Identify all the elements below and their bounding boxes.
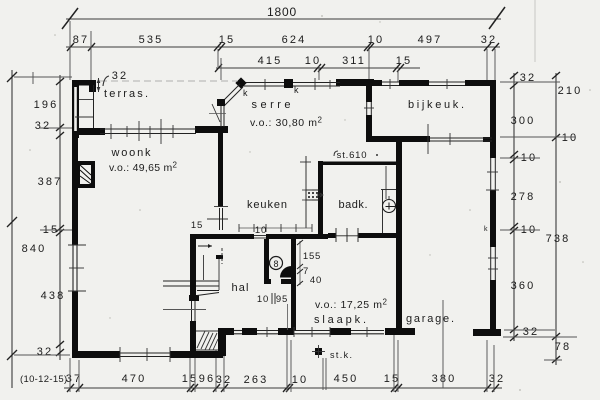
- bijkeuken west wall: [366, 86, 372, 140]
- svg-text:450: 450: [334, 373, 359, 385]
- woonk south window: [120, 351, 170, 358]
- dim row1 slash left: [62, 8, 78, 29]
- terras left wall: [72, 80, 79, 138]
- left inner dim line: [59, 75, 61, 360]
- svg-text:10: 10: [305, 55, 321, 67]
- woonk east wall end tick + sidelight: [207, 207, 228, 220]
- stairs side lines: [203, 255, 205, 280]
- serre posts: [235, 77, 246, 88]
- keuken vent hatch box: [306, 190, 319, 200]
- svg-text:k: k: [243, 88, 248, 98]
- svg-text:k: k: [484, 226, 488, 233]
- st.k chimney block: [315, 348, 322, 355]
- wc door sector: [280, 266, 292, 278]
- bottom witness verticals: [70, 334, 494, 392]
- bijkeuken south wall: [366, 136, 430, 142]
- svg-text:10: 10: [292, 374, 308, 386]
- dim row1 slash right: [489, 7, 505, 29]
- svg-text:badk.: badk.: [339, 199, 370, 211]
- svg-text:32: 32: [112, 70, 128, 82]
- entrance porch hatch: [197, 331, 218, 350]
- svg-text:terras.: terras.: [104, 88, 150, 100]
- svg-text:155: 155: [303, 251, 321, 262]
- dim row3 line: [216, 67, 420, 69]
- svg-text:15: 15: [219, 34, 235, 46]
- wc/hal east wall: [291, 239, 296, 330]
- left outer dim line 840: [11, 70, 13, 388]
- svg-text:438: 438: [41, 290, 66, 302]
- right witness horizontals: [500, 82, 577, 360]
- svg-text:v.o.: 17,25 m2: v.o.: 17,25 m2: [315, 298, 388, 312]
- garage SE foot: [473, 329, 501, 336]
- faint top wall extension: [100, 80, 238, 82]
- svg-text:woonk: woonk: [111, 147, 153, 159]
- fireplace inner hatch: [80, 165, 91, 184]
- garage east wall window upper: [490, 158, 496, 190]
- hal west wall lower: [190, 321, 196, 353]
- svg-text:bijkeuk.: bijkeuk.: [408, 99, 466, 111]
- svg-text:278: 278: [511, 191, 536, 203]
- row3 slashes: [215, 64, 404, 72]
- slaapk south window 2: [351, 330, 384, 332]
- svg-text:624: 624: [282, 34, 307, 46]
- bottom dim line: [64, 387, 502, 389]
- left witness horizontals: [14, 72, 72, 355]
- svg-text:10: 10: [368, 34, 384, 46]
- svg-text:7: 7: [303, 266, 309, 277]
- wall above hal (woonk doorway): [190, 234, 223, 239]
- garage door centre witness: [442, 300, 444, 388]
- svg-text:387: 387: [38, 176, 63, 188]
- stairs treads: [163, 281, 219, 296]
- keuken south wall: [223, 234, 254, 239]
- dim row1 line 1800: [66, 18, 501, 20]
- svg-text:470: 470: [122, 373, 147, 385]
- keuken flue line: [305, 156, 307, 228]
- svg-text:87: 87: [73, 34, 89, 46]
- st.k cross ticks: [312, 351, 325, 353]
- left wall window: [72, 245, 78, 291]
- hal window in west wall: [191, 301, 193, 321]
- svg-text:serre: serre: [252, 99, 293, 111]
- terras inner line + steps: [93, 85, 95, 128]
- bijkeuken north window 2: [429, 81, 465, 83]
- woonk east wall: [218, 133, 223, 207]
- bijkeuken west wall window: [366, 102, 372, 115]
- svg-text:196: 196: [34, 99, 59, 111]
- svg-text:380: 380: [432, 373, 457, 385]
- serre door leaf: [212, 104, 220, 122]
- garage east wall window lower: [490, 247, 496, 280]
- svg-text:garage.: garage.: [406, 313, 456, 325]
- slaapk south window 1: [294, 330, 330, 332]
- garage east exterior wall: [490, 82, 496, 336]
- svg-text:32: 32: [35, 120, 51, 132]
- svg-text:8: 8: [273, 259, 278, 269]
- svg-text:10: 10: [562, 132, 578, 144]
- garage west wall: [396, 136, 402, 330]
- garage west foot: [385, 328, 415, 335]
- bottom slashes: [67, 384, 499, 392]
- badk west wall: [318, 161, 323, 239]
- stairs arrow: [198, 245, 212, 247]
- badk top wall: [318, 162, 396, 166]
- witness verticals top: [70, 21, 495, 82]
- svg-text:311: 311: [342, 55, 366, 67]
- woonk NE wall chunk: [195, 126, 228, 133]
- svg-text:keuken: keuken: [247, 199, 289, 211]
- svg-text:32: 32: [489, 373, 505, 385]
- svg-text:738: 738: [546, 233, 571, 245]
- terras top wall: [72, 80, 96, 86]
- svg-text:300: 300: [511, 115, 536, 127]
- wc west wall: [264, 239, 269, 284]
- woonk south wall: [72, 351, 223, 358]
- svg-text:96: 96: [199, 373, 215, 385]
- garage west wall window: [381, 189, 396, 191]
- st.610 label: [334, 151, 338, 156]
- stairs dashed line: [221, 248, 223, 264]
- bijkeuken north wall pieces: [374, 80, 382, 86]
- slaapk corner dim line: [299, 241, 301, 285]
- svg-text:263: 263: [244, 374, 269, 386]
- svg-text:1800: 1800: [267, 5, 297, 19]
- serre corner post: [217, 99, 225, 106]
- left exterior wall: [72, 128, 78, 358]
- svg-text:k: k: [294, 85, 299, 95]
- keuken counter dim line: [239, 227, 312, 229]
- svg-text:535: 535: [139, 34, 164, 46]
- svg-text:78: 78: [555, 341, 571, 353]
- wall east of entrance porch: [218, 328, 226, 356]
- top wall thick segment serre-bijkeuken: [336, 79, 374, 86]
- entrance door thin lines: [234, 330, 242, 332]
- terras 32 dim: [98, 78, 100, 92]
- dim row2 line: [66, 46, 500, 48]
- svg-text:(10-12-15): (10-12-15): [20, 374, 68, 385]
- south wall entrance piece: [242, 328, 257, 335]
- svg-text:37: 37: [66, 373, 82, 385]
- fireplace block: [76, 161, 95, 188]
- svg-text:32: 32: [37, 346, 53, 358]
- svg-text:15: 15: [396, 55, 412, 67]
- svg-text:v.o.: 30,80 m2: v.o.: 30,80 m2: [250, 116, 323, 130]
- svg-text:95: 95: [276, 294, 288, 305]
- svg-text:hal: hal: [232, 282, 251, 294]
- badk boiler circle: [383, 200, 396, 213]
- woonk north window: [100, 129, 196, 134]
- terras wall slit: [74, 87, 77, 131]
- svg-text:840: 840: [22, 243, 47, 255]
- keuken doorway thin lines: [254, 235, 266, 237]
- svg-text:slaapk.: slaapk.: [314, 314, 368, 326]
- right inner dim line: [513, 73, 515, 341]
- wc symbol circle 8: [270, 257, 283, 270]
- svg-text:v.o.: 49,65 m2: v.o.: 49,65 m2: [109, 161, 178, 175]
- south wall piece 4: [330, 328, 351, 335]
- south wall piece 3: [278, 328, 294, 335]
- right outer dim line: [555, 73, 557, 365]
- wc south wall: [264, 279, 271, 284]
- svg-text:10: 10: [255, 225, 267, 236]
- badk south door ticks: [336, 228, 358, 242]
- svg-text:497: 497: [418, 34, 443, 46]
- bijkeuken south window band: [430, 137, 492, 139]
- row2 slashes: [67, 43, 499, 51]
- hal witness tick: [163, 309, 206, 311]
- svg-text:415: 415: [258, 55, 283, 67]
- serre angled window: [221, 84, 243, 127]
- svg-text:st.k.: st.k.: [330, 350, 352, 360]
- NW corner bar: [72, 128, 105, 135]
- serre top window: [238, 83, 340, 87]
- svg-text:210: 210: [558, 85, 583, 97]
- entrance side window: [257, 330, 278, 332]
- svg-text:st.610: st.610: [337, 150, 368, 161]
- svg-text:360: 360: [511, 280, 536, 292]
- svg-text:32: 32: [523, 326, 539, 338]
- hal west wall upper: [190, 239, 196, 297]
- faint scan crease: [534, 0, 536, 62]
- bijkeuken north window 1: [382, 81, 399, 83]
- badk south wall: [328, 233, 336, 238]
- hal west wall blob: [189, 295, 199, 301]
- svg-text:40: 40: [310, 275, 322, 286]
- svg-text:32: 32: [481, 34, 497, 46]
- svg-text:15: 15: [191, 220, 203, 231]
- svg-text:10: 10: [257, 294, 269, 305]
- stairs corner block: [216, 255, 223, 259]
